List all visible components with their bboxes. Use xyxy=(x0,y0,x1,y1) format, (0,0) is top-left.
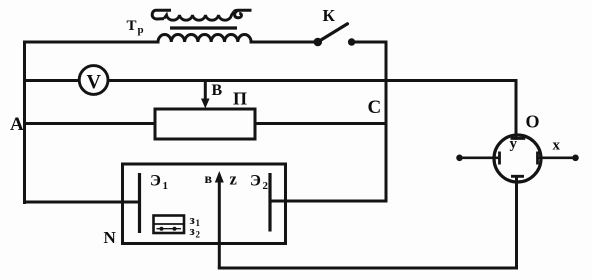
probe tip dot 2 xyxy=(173,227,177,231)
vessel N walls xyxy=(123,164,286,244)
svg-text:Э: Э xyxy=(250,173,261,190)
svg-text:з: з xyxy=(190,223,195,238)
CRT O envelope xyxy=(494,135,541,182)
field/probe arrow stem along z xyxy=(218,181,221,268)
svg-text:2: 2 xyxy=(196,230,201,240)
wire: bottom bus to CRT bottom plate xyxy=(219,177,516,269)
svg-text:Т: Т xyxy=(127,18,137,34)
svg-text:2: 2 xyxy=(263,180,269,192)
svg-text:С: С xyxy=(368,97,382,118)
voltmeter V body xyxy=(79,66,108,95)
CRT left x-plate xyxy=(498,152,501,165)
transformer Tr primary winding left bar with curl xyxy=(152,10,171,19)
switch K left contact dot xyxy=(314,38,323,47)
switch K right contact dot xyxy=(348,38,355,45)
wire: left bus bottom into electrode E1 xyxy=(25,201,139,204)
wiper arrow head xyxy=(201,99,210,109)
wire: top bus right segment to switch xyxy=(251,41,318,44)
svg-text:1: 1 xyxy=(196,218,201,228)
wire: node A to potentiometer xyxy=(25,122,156,125)
svg-text:О: О xyxy=(526,112,540,132)
transformer Tr secondary winding (lower coil on bus) xyxy=(158,34,251,42)
svg-text:1: 1 xyxy=(163,180,169,192)
wire: right x lead xyxy=(538,157,576,160)
svg-text:В: В xyxy=(212,82,223,99)
svg-text:П: П xyxy=(233,89,247,109)
svg-text:V: V xyxy=(87,71,102,93)
potentiometer P body xyxy=(155,109,255,139)
switch K blade xyxy=(319,24,348,42)
wire: right bus to electrode E2 xyxy=(271,200,386,203)
transformer Tr primary winding right bar with curl xyxy=(234,10,252,18)
probe tips line xyxy=(157,228,182,230)
svg-text:в: в xyxy=(205,172,213,187)
svg-text:К: К xyxy=(323,6,336,25)
electrode E1 xyxy=(138,173,141,233)
wiper arrow stem xyxy=(204,82,207,100)
wire: top bus left segment xyxy=(25,41,159,44)
svg-text:Э: Э xyxy=(150,173,161,190)
svg-text:р: р xyxy=(138,24,144,36)
probe box divider xyxy=(154,223,185,225)
CRT bottom y-plate xyxy=(511,175,524,178)
svg-text:х: х xyxy=(553,138,561,154)
wire: voltmeter branch left stub xyxy=(25,79,80,82)
svg-text:N: N xyxy=(104,228,117,247)
terminal dot left x lead xyxy=(456,155,463,162)
terminal dot right x lead xyxy=(572,155,579,162)
wire: left vertical bus xyxy=(23,42,26,203)
svg-text:z: z xyxy=(230,169,237,188)
CRT right x-plate xyxy=(536,152,539,165)
CRT top y-plate xyxy=(511,137,526,140)
wire: voltmeter branch to CRT top corner xyxy=(108,81,516,139)
transformer Tr primary winding scallops xyxy=(164,12,234,21)
transformer Tr core bar xyxy=(170,26,237,29)
probe tip dot 1 xyxy=(160,227,164,231)
field arrow head xyxy=(215,171,224,183)
probe box xyxy=(154,216,185,234)
wire: potentiometer right side to node C vertical xyxy=(255,122,386,125)
wire: switch output down right vertical bus xyxy=(352,42,386,201)
svg-text:у: у xyxy=(510,136,518,152)
wire: left x lead xyxy=(460,157,500,160)
electrode E2 xyxy=(268,173,271,232)
svg-text:А: А xyxy=(10,114,24,135)
